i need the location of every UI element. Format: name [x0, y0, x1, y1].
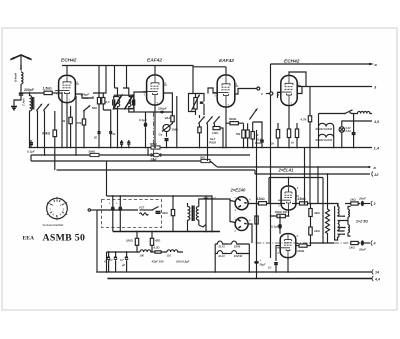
- wire grid feed: [61, 93, 63, 148]
- wire transformer sec top to EZ40: [199, 199, 235, 203]
- wire heater verticals: [319, 114, 334, 148]
- switch bank PU 1: [198, 115, 205, 127]
- svg-text:43kΩ: 43kΩ: [297, 197, 307, 201]
- label SLF PU20 left: [209, 137, 216, 145]
- wire HT rail vertical: [256, 130, 258, 279]
- wire output stage to transformer: [311, 242, 335, 244]
- capacitor ripple 0: [103, 252, 110, 272]
- resistor padder: [102, 93, 110, 110]
- potentiometer 1M volume: [159, 123, 179, 137]
- resistor osc anode 50k: [92, 93, 101, 131]
- wire V4 grid stub: [278, 93, 282, 99]
- transformer power secondary: [196, 203, 198, 225]
- tube output EL41 a: [278, 186, 299, 210]
- svg-text:4k: 4k: [61, 119, 66, 123]
- tube output EL41 b: [277, 234, 299, 258]
- svg-text:5kΩ: 5kΩ: [200, 155, 206, 159]
- tube rectifier EZ40 b: [234, 217, 251, 233]
- svg-text:101: 101: [167, 254, 172, 258]
- wire IFT1 top feed: [115, 66, 127, 89]
- svg-text:0,4mH: 0,4mH: [14, 72, 18, 82]
- svg-text:15kΩ 1W: 15kΩ 1W: [275, 210, 289, 214]
- wire det right column: [176, 96, 178, 148]
- IF transformer 1 trimmer arrow secondary: [124, 94, 134, 110]
- capacitor filter mid: [151, 246, 168, 264]
- resistor inline on ground bus: [200, 155, 210, 162]
- svg-text:2k: 2k: [112, 132, 116, 136]
- wire heater chain verticals: [215, 244, 249, 272]
- antenna: [10, 55, 33, 72]
- svg-text:10kpF: 10kpF: [158, 107, 167, 111]
- transformer output secondary speaker 1: [345, 207, 351, 221]
- resistor speaker damp: [326, 174, 330, 243]
- junction dots heater bus: [29, 147, 355, 149]
- svg-text:VA2: VA2: [165, 116, 171, 120]
- capacitor 10kpF detector: [148, 107, 172, 114]
- svg-text:Sockelschaltbild: Sockelschaltbild: [43, 223, 64, 227]
- resistor tone 1k top: [345, 197, 360, 205]
- svg-text:1MΩ: 1MΩ: [172, 128, 179, 132]
- svg-text:100: 100: [140, 254, 145, 258]
- resistor VA2: [165, 112, 175, 124]
- wire top bus right segment with terminal a: [271, 62, 378, 67]
- wire IFT1 frame: [114, 95, 134, 109]
- heater series chain row 2: [215, 251, 249, 258]
- svg-text:50kΩ: 50kΩ: [229, 117, 237, 121]
- tube socket bottom view: [47, 197, 68, 220]
- svg-text:µF: µF: [121, 263, 125, 267]
- label socket caption: [43, 223, 64, 227]
- capacitor osc pad small 1: [120, 140, 123, 148]
- resistor 15k 1W: [271, 210, 289, 218]
- svg-text:14: 14: [375, 271, 379, 275]
- svg-text:4,4: 4,4: [374, 278, 380, 282]
- svg-text:ECH42: ECH42: [61, 58, 77, 64]
- svg-text:1kΩ: 1kΩ: [349, 246, 355, 250]
- heater chain row 1: [316, 123, 334, 131]
- junction dots AVC bus: [44, 154, 209, 156]
- capacitor tone: [165, 139, 169, 148]
- capacitor HT plus 25uF: [204, 196, 216, 232]
- wire output top line: [311, 204, 339, 207]
- capacitor osc pad small 2: [127, 140, 130, 148]
- coil antenna choke: [14, 72, 24, 93]
- svg-text:12kΩ: 12kΩ: [257, 197, 266, 201]
- svg-text:EEA: EEA: [23, 236, 35, 242]
- fuse VZ7: [139, 206, 152, 216]
- capacitor spark: [352, 114, 356, 148]
- coil filter choke 2: [167, 250, 190, 264]
- svg-text:50k: 50k: [92, 106, 97, 110]
- capacitor electrolytic 50uF: [254, 259, 266, 267]
- wire heater bottom bus: [98, 269, 379, 274]
- wire lower box left vertical: [211, 206, 213, 232]
- svg-text:12: 12: [374, 172, 379, 177]
- switch voltage selector: [152, 207, 161, 214]
- wire antenna node: [21, 92, 44, 94]
- svg-text:T.Ant: T.Ant: [22, 98, 26, 106]
- capacitor 0.1uF V2: [139, 112, 147, 148]
- capacitor electrolytic mains 2: [116, 196, 122, 232]
- coil dial: [351, 111, 372, 113]
- wire V4 top: [289, 72, 306, 87]
- svg-text:4kΩ: 4kΩ: [161, 211, 168, 215]
- lamp dial: [339, 120, 380, 148]
- wire bus link: [147, 148, 149, 156]
- resistor decoupling: [251, 122, 259, 148]
- label ASMB 50: [43, 233, 86, 244]
- resistor osc grid: [76, 119, 86, 148]
- capacitor 0.1uF coupling out: [271, 216, 282, 234]
- svg-text:50kΩ: 50kΩ: [89, 149, 97, 153]
- svg-text:10kpF: 10kpF: [81, 93, 90, 97]
- capacitor 20nF top with terminal 3: [358, 196, 376, 206]
- svg-text:EL41: EL41: [219, 245, 226, 249]
- resistor extra decoupling: [246, 123, 249, 147]
- wire jog 2: [254, 170, 256, 174]
- svg-text:0,1µF: 0,1µF: [27, 150, 35, 154]
- resistor 10k anode b: [297, 243, 311, 253]
- tube V4 ECH42: [277, 59, 300, 106]
- svg-text:4: 4: [373, 242, 376, 246]
- svg-text:6,3Ω: 6,3Ω: [154, 246, 161, 250]
- wire V3 top: [193, 67, 226, 75]
- switch wave band 1: [36, 103, 42, 147]
- IF transformer 1 secondary: [127, 88, 135, 112]
- coil filter choke 1: [140, 250, 152, 258]
- svg-text:EAF42: EAF42: [147, 58, 162, 64]
- svg-text:PU20: PU20: [209, 141, 216, 145]
- resistor V4 grid leak: [291, 123, 299, 148]
- wire mains line inside box: [97, 209, 138, 211]
- wire HT filter line: [107, 251, 141, 253]
- svg-text:1,4: 1,4: [374, 146, 380, 151]
- label SLF PU20 right: [255, 138, 262, 146]
- resistor 180 ohm: [126, 232, 139, 253]
- svg-text:3kΩ: 3kΩ: [314, 211, 320, 215]
- wire tone feed vertical: [317, 168, 319, 204]
- tube V3 EAF42: [214, 58, 239, 107]
- capacitor ripple 1: [108, 252, 117, 272]
- coil input tuned: [22, 93, 34, 148]
- capacitor IFT1 primary: [113, 97, 118, 109]
- dashed box mains selector: [102, 200, 162, 228]
- svg-text:EAF42: EAF42: [234, 254, 243, 258]
- svg-text:2×EZ40: 2×EZ40: [230, 188, 246, 193]
- svg-text:45Ω: 45Ω: [154, 239, 161, 243]
- wire B plus to output b: [309, 148, 311, 204]
- svg-text:+: +: [109, 201, 111, 205]
- svg-text:0,1: 0,1: [268, 267, 272, 270]
- wire left rail to power unit: [106, 161, 108, 196]
- wire B plus to output a: [304, 148, 306, 204]
- svg-text:EAF42: EAF42: [219, 58, 234, 64]
- wire EZ40 cathodes join: [248, 204, 256, 244]
- ground antenna: [11, 107, 17, 110]
- wire AVC dashdot: [153, 112, 155, 161]
- resistor 50k anode V3: [226, 117, 244, 125]
- wire V3 anode to terminal: [235, 87, 260, 94]
- svg-text:+: +: [260, 259, 262, 263]
- wire lower left vertical: [96, 210, 98, 272]
- svg-text:65kΩ: 65kΩ: [42, 132, 51, 136]
- svg-text:20nF: 20nF: [358, 196, 366, 200]
- wire long lower bus with terminal 12: [57, 169, 256, 171]
- wire AVC bus: [31, 154, 250, 156]
- resistor 43k anode a: [296, 197, 311, 205]
- svg-text:1kΩ: 1kΩ: [314, 229, 320, 233]
- wire anode line to terminal 3: [297, 85, 377, 90]
- transformer output secondary speaker 2: [348, 221, 351, 237]
- wire EL41b pins: [276, 246, 299, 272]
- tube V1 ECH42: [55, 58, 79, 103]
- transformer power primary: [188, 203, 190, 232]
- wire transformer sec bottom: [199, 225, 206, 228]
- terminal eye: [261, 92, 273, 96]
- svg-text:25µF: 25µF: [208, 197, 216, 201]
- svg-text:10kΩ: 10kΩ: [297, 249, 305, 253]
- svg-text:EL41: EL41: [219, 254, 226, 258]
- wire osc coupling: [76, 96, 111, 155]
- label speakers: [355, 220, 368, 224]
- svg-text:20nF: 20nF: [358, 248, 366, 252]
- tube rectifier EZ40 a: [234, 196, 251, 212]
- svg-text:2k: 2k: [270, 142, 274, 146]
- wire EZ40 lower anode: [230, 199, 235, 223]
- switch bank PU 2: [206, 116, 213, 161]
- resistor inline 50k on heater bus: [150, 142, 160, 149]
- switch bank PU 3: [213, 116, 220, 127]
- capacitor 10kpF grid V1: [76, 93, 93, 99]
- resistor PU series: [212, 127, 223, 148]
- resistor V4 cathode: [287, 129, 290, 148]
- capacitor 20nF bottom with terminal 4: [358, 240, 376, 251]
- tube V2 EAF42: [143, 58, 167, 106]
- svg-text:2×Z 5Ω: 2×Z 5Ω: [355, 220, 368, 224]
- wire dashdot output lower to terminal 4: [257, 242, 351, 244]
- svg-text:1,5kΩ: 1,5kΩ: [43, 87, 53, 91]
- resistor 45 ohm: [150, 232, 161, 253]
- transformer power core: [192, 206, 194, 222]
- wire V2 top: [154, 66, 156, 76]
- transformer output primary: [334, 204, 346, 241]
- wire mains feed top: [107, 196, 213, 206]
- wire V1 cathode down: [66, 103, 68, 148]
- wire top bus left segment: [62, 66, 193, 94]
- heater chain row 2: [316, 134, 334, 142]
- heater series chain row 1: [215, 241, 249, 248]
- capacitor left 0.1uF: [27, 140, 35, 161]
- svg-text:3: 3: [374, 202, 376, 206]
- svg-text:4,7: 4,7: [108, 258, 113, 262]
- resistor V3 screen: [236, 123, 245, 147]
- svg-text:140Ω: 140Ω: [212, 131, 218, 135]
- capacitor electrolytic mains 1: [109, 196, 115, 232]
- svg-text:ECH42: ECH42: [284, 59, 300, 65]
- label 2xEL41: [278, 168, 294, 173]
- svg-text:200pF: 200pF: [23, 88, 35, 92]
- wire V3 cathode: [225, 107, 227, 148]
- wire output box top: [269, 178, 323, 244]
- capacitor antenna 200pF: [14, 88, 35, 106]
- svg-text:Ca: Ca: [159, 133, 163, 137]
- svg-text:EZ40: EZ40: [234, 245, 241, 249]
- resistor screen V4 4.7k: [300, 87, 312, 148]
- IF transformer 1 primary: [115, 88, 120, 148]
- volume pot AF: [189, 94, 201, 116]
- wire lower bus right with terminal 12: [255, 171, 379, 177]
- capacitor screen bypass: [260, 134, 264, 148]
- arrow variable marking: [250, 108, 258, 120]
- wire detector feed: [164, 93, 173, 116]
- wire filter right: [182, 251, 184, 253]
- wire EL41a pins: [281, 204, 296, 217]
- IF transformer 1 trimmer arrow primary: [113, 94, 123, 110]
- svg-text:+: +: [116, 201, 118, 205]
- svg-text:180Ω: 180Ω: [126, 239, 134, 243]
- wire osc top: [93, 66, 106, 94]
- resistor det load: [198, 127, 201, 148]
- wire jog: [210, 161, 217, 167]
- resistor tone 1k bottom: [349, 241, 360, 249]
- svg-text:4,7: 4,7: [119, 258, 124, 262]
- svg-text:0,3A: 0,3A: [346, 130, 351, 133]
- wire long grid bus with terminal a: [217, 165, 377, 170]
- wire V1 top: [66, 66, 68, 76]
- label EEA: [23, 236, 35, 242]
- resistor feedback: [255, 204, 258, 244]
- svg-text:50k: 50k: [236, 132, 241, 136]
- switch mains: [319, 110, 353, 115]
- svg-text:100+0,5µF: 100+0,5µF: [176, 260, 190, 264]
- svg-text:ASMB 50: ASMB 50: [43, 233, 86, 244]
- wire HT filter left vertical: [106, 252, 108, 272]
- capacitor ripple 2: [119, 252, 128, 272]
- switch wave band 2: [43, 103, 49, 155]
- resistor divider 3k: [309, 204, 321, 228]
- wire EL41a top feed: [288, 178, 290, 187]
- svg-text:2×EL41: 2×EL41: [278, 168, 294, 173]
- capacitor inline 50uF on AVC bus: [151, 153, 161, 161]
- wire V4 cathode: [288, 106, 290, 129]
- wire V4 anode jog: [297, 87, 302, 94]
- svg-text:0,1: 0,1: [106, 100, 111, 104]
- wire V2 cathode: [154, 105, 156, 148]
- wire B plus vertical: [270, 64, 272, 258]
- svg-text:0,1µF: 0,1µF: [139, 118, 147, 122]
- svg-text:0,1µF: 0,1µF: [271, 225, 279, 229]
- label 2xEZ40: [230, 188, 246, 193]
- svg-text:4,7k: 4,7k: [300, 118, 307, 122]
- wire detector diode: [134, 111, 148, 113]
- capacitor pad 2: [109, 127, 116, 148]
- wire screen node: [253, 122, 262, 134]
- switch osc: [83, 105, 91, 119]
- resistor 65k: [42, 111, 57, 170]
- wire main heater bus with terminal 1.4: [30, 146, 380, 151]
- resistor V4 anode load: [270, 123, 280, 148]
- resistor 1.5k: [43, 87, 63, 95]
- wire chassis bottom bus: [107, 276, 380, 282]
- svg-text:47µF 100: 47µF 100: [151, 260, 164, 264]
- capacitor pad 1: [94, 131, 101, 148]
- svg-text:50µF: 50µF: [260, 264, 266, 267]
- capacitor coupling AF: [196, 94, 205, 116]
- resistor inline 50k on AVC bus: [89, 149, 100, 156]
- wire connecting upper lower left: [88, 209, 97, 211]
- wire V2 grid left: [134, 92, 147, 112]
- wire mains bottom bus: [113, 231, 220, 233]
- resistor 12k feed: [257, 197, 282, 205]
- resistor cathode V1: [61, 106, 72, 148]
- wire ground bus short: [31, 160, 201, 162]
- svg-text:1kΩ: 1kΩ: [350, 197, 356, 201]
- transformer output core: [334, 206, 336, 240]
- svg-text:4,5: 4,5: [373, 120, 380, 124]
- capacitor grid b: [268, 263, 278, 272]
- resistor dropper 4k: [161, 196, 175, 232]
- wire V3 grid: [208, 88, 218, 94]
- capacitor IFT1 secondary: [129, 97, 135, 109]
- junction dots misc: [20, 92, 328, 273]
- svg-text:VZ7: VZ7: [139, 206, 145, 210]
- resistor divider 1k5: [309, 227, 321, 243]
